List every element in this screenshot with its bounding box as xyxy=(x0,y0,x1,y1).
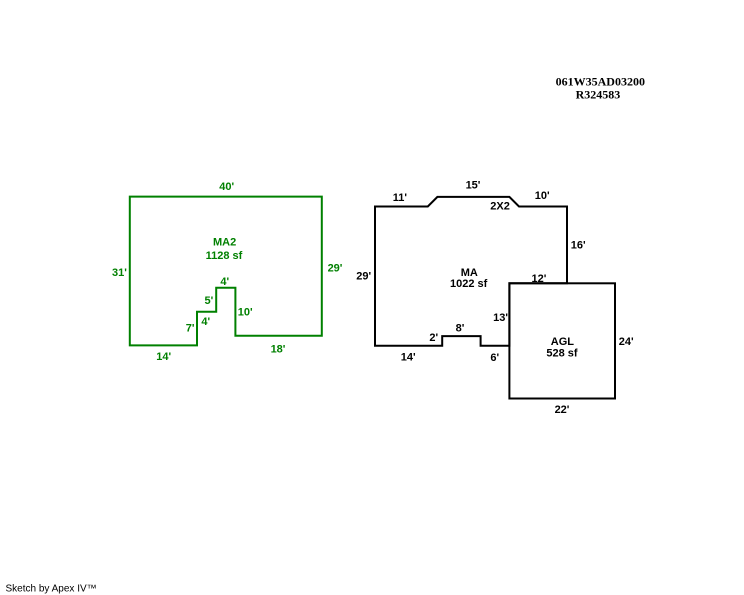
svg-text:2X2: 2X2 xyxy=(490,201,510,213)
svg-text:11': 11' xyxy=(393,192,408,204)
svg-text:6': 6' xyxy=(490,352,499,364)
svg-text:16': 16' xyxy=(571,239,586,251)
area MA2 outline (green polygon) xyxy=(130,197,322,346)
svg-text:8': 8' xyxy=(456,323,465,335)
svg-text:12': 12' xyxy=(531,273,546,285)
svg-text:14': 14' xyxy=(156,351,171,363)
svg-text:10': 10' xyxy=(238,307,253,319)
svg-text:Sketch by Apex IV™: Sketch by Apex IV™ xyxy=(6,584,97,595)
svg-text:29': 29' xyxy=(328,263,343,275)
svg-text:13': 13' xyxy=(493,312,508,324)
svg-text:10': 10' xyxy=(535,190,550,202)
svg-text:7': 7' xyxy=(186,323,195,335)
svg-text:5': 5' xyxy=(205,295,214,307)
svg-text:528 sf: 528 sf xyxy=(546,348,578,360)
svg-text:MA2: MA2 xyxy=(213,237,236,249)
area AGL outline (black rectangle) xyxy=(509,283,615,398)
svg-text:1128 sf: 1128 sf xyxy=(206,250,243,262)
svg-text:22': 22' xyxy=(555,404,570,416)
svg-text:061W35AD03200: 061W35AD03200 xyxy=(556,75,645,89)
svg-text:AGL: AGL xyxy=(551,336,575,348)
svg-text:4': 4' xyxy=(220,276,229,288)
svg-text:29': 29' xyxy=(356,270,371,282)
svg-text:40': 40' xyxy=(219,181,234,193)
svg-text:24': 24' xyxy=(619,336,634,348)
svg-text:2': 2' xyxy=(429,332,438,344)
svg-text:14': 14' xyxy=(401,352,416,364)
svg-text:1022 sf: 1022 sf xyxy=(450,278,488,290)
svg-text:15': 15' xyxy=(466,180,481,192)
svg-text:18': 18' xyxy=(271,344,286,356)
svg-text:31': 31' xyxy=(112,267,127,279)
area MA outline (black polygon) xyxy=(375,197,567,346)
svg-text:4': 4' xyxy=(201,316,210,328)
svg-text:R324583: R324583 xyxy=(576,88,621,102)
